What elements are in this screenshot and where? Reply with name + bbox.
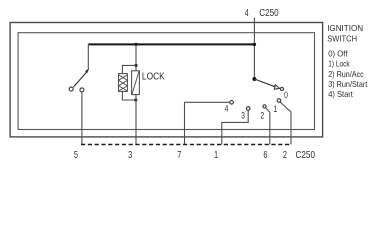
svg-text:SWITCH: SWITCH: [327, 34, 357, 44]
wire contact 3 to pin 1: [222, 110, 248, 144]
power rail wire: [88, 43, 254, 45]
svg-text:4: 4: [245, 8, 249, 19]
connector C250 pin 4 label (top): [245, 8, 279, 19]
svg-text:6: 6: [263, 150, 267, 161]
wire switch to pin 5: [81, 92, 83, 145]
wire coil bottom to main: [122, 91, 136, 100]
wire rail down to left switch: [87, 44, 89, 70]
connector C250 dashed boundary (bottom): [81, 144, 290, 146]
contact 2: [263, 105, 266, 108]
wire contact 1 to pin 2: [280, 102, 291, 144]
junction coil return: [134, 98, 137, 101]
outer enclosure box: [10, 23, 323, 137]
svg-text:3) Run/Start: 3) Run/Start: [328, 79, 368, 89]
rotary switch pivot: [252, 77, 256, 81]
junction rail / pin4 wire: [253, 43, 256, 46]
svg-text:3: 3: [128, 150, 132, 161]
svg-text:1) Lock: 1) Lock: [328, 59, 350, 69]
rotary blade open arrowhead: [274, 85, 279, 90]
svg-text:IGNITION: IGNITION: [327, 23, 363, 33]
svg-text:4) Start: 4) Start: [328, 89, 353, 99]
wire lock to pin 3: [135, 95, 137, 145]
svg-text:7: 7: [177, 150, 181, 161]
inner switch assembly box: [18, 33, 314, 130]
lock coil box: [119, 74, 128, 92]
svg-text:2: 2: [260, 110, 264, 120]
svg-text:1: 1: [214, 150, 218, 161]
wire contact 2 to pin 6: [266, 108, 270, 145]
svg-text:C250: C250: [296, 150, 316, 161]
left switch contact (open): [69, 87, 73, 91]
svg-text:1: 1: [273, 104, 277, 114]
left switch blade arrowhead: [85, 68, 89, 73]
left switch blade: [73, 71, 88, 88]
lock actuator diagonal: [132, 71, 139, 94]
bottom pin labels: [74, 150, 315, 161]
contact 1: [277, 99, 281, 103]
svg-text:C250: C250: [259, 8, 279, 19]
lock actuator body: [132, 71, 140, 95]
contact 3: [246, 107, 250, 111]
svg-text:0) Off: 0) Off: [328, 49, 348, 59]
ignition switch legend: [327, 23, 368, 99]
junction branch to coil: [134, 64, 137, 67]
wire rail to lock actuator: [135, 44, 137, 70]
svg-text:4: 4: [225, 103, 229, 113]
wire from C250 pin 4 down to pivot: [253, 18, 255, 79]
left switch contact to pin 5: [80, 88, 84, 92]
wire branch to coil: [122, 65, 136, 73]
junction lock tap: [134, 43, 137, 46]
lock coil winding zigzag: [119, 75, 128, 91]
contact 0: [280, 87, 283, 90]
svg-text:2) Run/Acc: 2) Run/Acc: [328, 69, 364, 79]
wire contact 4 to pin 7: [185, 102, 230, 144]
svg-text:3: 3: [241, 111, 245, 121]
svg-text:2: 2: [283, 150, 287, 161]
rotary switch blade: [254, 79, 275, 87]
svg-text:0: 0: [284, 90, 288, 100]
svg-text:LOCK: LOCK: [142, 72, 165, 83]
svg-text:5: 5: [74, 150, 78, 161]
contact 4: [230, 101, 234, 105]
